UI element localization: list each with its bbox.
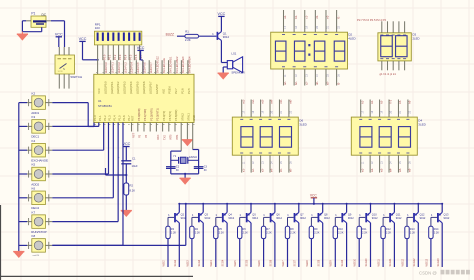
pin bottom 5 of D2 — [325, 69, 327, 86]
svg-text:SEG7: SEG7 — [293, 259, 296, 266]
push button K4 — [31, 139, 48, 163]
svg-text:Q12: Q12 — [420, 212, 425, 216]
power VCC (to U1 pin 40) — [79, 37, 99, 61]
svg-text:2.2K: 2.2K — [362, 231, 368, 235]
pin 3 of RP1 — [107, 45, 109, 60]
wire emitter Q6 — [274, 203, 276, 213]
wire K6 to U1 P1.4 — [52, 123, 113, 198]
pin bottom 4 of D6 — [269, 155, 271, 172]
transistor Q10 9012 — [359, 212, 378, 222]
pin bottom 6 of D4 — [407, 155, 409, 172]
wire U1 bottom stub — [168, 123, 170, 132]
svg-text:2.2K: 2.2K — [243, 231, 249, 235]
wire button common line — [18, 103, 20, 252]
svg-text:P0.3: P0.3 — [118, 54, 122, 60]
pin bottom 6 of D2 — [336, 69, 338, 86]
power VCC (Q1) — [218, 12, 226, 31]
svg-text:(LED)P0.3: (LED)P0.3 — [123, 81, 127, 94]
transistor Q7 9012 — [288, 212, 307, 222]
pin left of K7 — [27, 218, 32, 225]
wire collector Q13 — [441, 223, 443, 267]
svg-text:WEI13: WEI13 — [425, 258, 428, 266]
pin bottom 4 of D2 — [314, 69, 316, 86]
svg-text:Y1: Y1 — [173, 154, 177, 158]
pin 4 of RP1 — [112, 45, 114, 60]
wire R4 bottom — [191, 239, 193, 267]
pin top 10 of U1 — [155, 60, 157, 74]
svg-text:DC: DC — [42, 13, 47, 17]
wire base Q7 — [288, 217, 294, 226]
svg-text:SEG9: SEG9 — [341, 259, 344, 266]
svg-text:n1-: n1- — [241, 168, 245, 172]
wire — [0, 205, 2, 280]
pin bottom 2 of D2 — [293, 69, 295, 86]
wire R5 bottom — [215, 239, 217, 267]
pin top 15 of U1 — [187, 60, 189, 74]
7-seg display D6 — [232, 117, 298, 155]
wire BUZZ to R1 — [177, 35, 185, 37]
switch S1 — [55, 55, 82, 79]
wire XTAL1 — [193, 123, 199, 174]
svg-text:STC89C51: STC89C51 — [98, 104, 112, 108]
pin top 6 of D6 — [288, 100, 290, 118]
svg-text:9012: 9012 — [276, 216, 282, 220]
svg-text:S: S — [63, 67, 65, 71]
svg-text:VCC: VCC — [310, 194, 318, 198]
wire K2 to U1 P1.0 — [52, 103, 94, 127]
svg-text:b1-: b1- — [294, 15, 298, 19]
svg-text:SEG4: SEG4 — [222, 259, 225, 266]
svg-text:R6: R6 — [243, 227, 247, 231]
wire R11 bottom — [358, 239, 360, 267]
svg-text:3LED: 3LED — [418, 122, 426, 126]
pin top 5 of D3 — [404, 21, 406, 33]
svg-text:P1.0: P1.0 — [93, 115, 97, 121]
pin bottom 2 of D3 — [387, 61, 389, 70]
svg-text:RST: RST — [131, 115, 135, 121]
svg-text:R2: R2 — [130, 184, 134, 188]
wire collector Q12 — [417, 223, 419, 267]
svg-text:m1-: m1- — [241, 99, 245, 104]
wire collector Q6 — [274, 223, 276, 267]
ground (crystal) — [180, 178, 191, 184]
pin top 3 of D6 — [260, 100, 262, 118]
wire U1 bottom stub — [149, 123, 151, 132]
svg-text:Q7: Q7 — [300, 212, 304, 216]
resistor R2 — [124, 175, 135, 210]
pin top 3 of D3 — [392, 21, 394, 33]
svg-text:SEG8: SEG8 — [317, 259, 320, 266]
svg-text:8.2K: 8.2K — [130, 188, 136, 192]
wire Q1 collector to speaker — [221, 40, 227, 62]
capacitor C3 30 — [194, 166, 208, 173]
svg-text:9012: 9012 — [420, 216, 426, 220]
pin of S1 — [63, 47, 65, 55]
pin top 12 of U1 — [168, 60, 170, 74]
svg-text:Q8: Q8 — [324, 212, 328, 216]
svg-text:2.2K: 2.2K — [434, 231, 440, 235]
pin top 14 of U1 — [180, 60, 182, 74]
wire base Q8 — [311, 217, 317, 226]
svg-text:w4-: w4- — [389, 168, 393, 172]
svg-text:Q4: Q4 — [228, 212, 232, 216]
svg-text:(LED)P0.6: (LED)P0.6 — [142, 81, 146, 94]
wire emitter Q4 — [226, 203, 228, 213]
wire U1 bottom stub — [143, 123, 145, 132]
svg-text:BUZZ: BUZZ — [166, 32, 174, 36]
svg-text:LS1: LS1 — [231, 51, 236, 55]
op-amp U1 STC89C51 MCU — [94, 74, 194, 122]
svg-text:WEI8: WEI8 — [306, 260, 309, 267]
svg-text:SEG11: SEG11 — [389, 258, 392, 266]
svg-text:w2-: w2- — [370, 168, 374, 172]
svg-text:WEI2: WEI2 — [162, 260, 165, 267]
svg-text:WEI10: WEI10 — [354, 258, 357, 266]
pin bottom 2 of D4 — [369, 155, 371, 172]
crystal Y1 12MHz — [171, 154, 199, 164]
wire K3 to U1 P1.1 — [52, 123, 99, 127]
svg-text:m2-: m2- — [251, 99, 255, 104]
svg-text:e1-: e1- — [326, 15, 330, 19]
pin 8 of RP1 — [133, 45, 135, 60]
pin top 9 of U1 — [148, 60, 150, 74]
wire collector Q2 — [178, 223, 180, 267]
svg-text:LED-P0.4: LED-P0.4 — [130, 62, 134, 74]
svg-text:SEG6: SEG6 — [270, 259, 273, 266]
wire U1 bottom stub — [174, 123, 176, 132]
pin bottom 4 of D3 — [398, 61, 400, 70]
resistor R3 2.2K — [166, 226, 177, 238]
svg-text:2.2K: 2.2K — [338, 231, 344, 235]
pin top 2 of D3 — [387, 21, 389, 33]
svg-text:2.2K: 2.2K — [171, 231, 177, 235]
pin top 3 of U1 — [110, 60, 112, 74]
wire collector Q4 — [226, 223, 228, 267]
wire U1 bottom stub — [162, 123, 164, 132]
RP1 element 7 — [128, 33, 130, 41]
svg-text:XTAL2: XTAL2 — [180, 113, 184, 121]
wire K8 to U1 P1.6 — [52, 123, 123, 246]
wire base Q5 — [240, 217, 246, 226]
pin right of K4 — [45, 147, 52, 154]
svg-text:w6-: w6- — [408, 168, 412, 172]
svg-text:VCC: VCC — [97, 88, 101, 94]
svg-text:XTAL1: XTAL1 — [187, 113, 191, 121]
svg-text:LED-P0.7: LED-P0.7 — [149, 62, 153, 74]
wire collector Q8 — [322, 223, 324, 267]
resistor R11 2.2K — [357, 226, 368, 238]
resistor R12 2.2K — [381, 226, 392, 238]
wire base Q13 — [431, 217, 437, 226]
wire collector Q10 — [370, 223, 372, 267]
push button K2 — [31, 91, 45, 115]
transistor Q11 9012 — [383, 212, 402, 222]
svg-text:VCC: VCC — [218, 12, 226, 16]
svg-text:K4: K4 — [32, 139, 36, 143]
svg-text:SM-LED-WEI1: SM-LED-WEI1 — [168, 56, 172, 73]
transistor Q4 9012 — [216, 212, 235, 222]
transistor Q2 9012 — [168, 212, 187, 222]
svg-text:P1.5: P1.5 — [117, 115, 121, 121]
pin bottom 5 of D6 — [278, 155, 280, 172]
svg-text:K5: K5 — [32, 163, 36, 167]
transistor Q8 9012 — [311, 212, 330, 222]
pin left of K3 — [27, 123, 32, 130]
RP1 element 4 — [112, 33, 114, 41]
svg-text:SEG5: SEG5 — [246, 259, 249, 266]
watermark — [419, 270, 470, 276]
resistor network RP1 103 — [94, 22, 141, 45]
push button K6 — [31, 187, 45, 211]
svg-text:0-2: 0-2 — [389, 99, 393, 103]
pin top 1 of D6 — [241, 100, 243, 118]
wire K6 to common — [19, 197, 27, 199]
wire K4 to common — [19, 149, 27, 151]
pin top 5 of D2 — [325, 10, 327, 32]
wire R1 to Q1 base — [199, 35, 217, 37]
wire R3 bottom — [167, 239, 169, 267]
wire R9 bottom — [310, 239, 312, 267]
RP1 element 8 — [133, 33, 135, 41]
svg-text:U1: U1 — [98, 99, 102, 103]
svg-text:P3.5(T1): P3.5(T1) — [168, 111, 172, 121]
svg-text:LED-P0.2: LED-P0.2 — [117, 62, 121, 74]
svg-text:c2-: c2- — [304, 81, 308, 85]
wire emitter Q2 — [178, 203, 180, 213]
svg-text:INT1: INT1 — [176, 134, 179, 140]
svg-text:P2.6: P2.6 — [181, 88, 185, 94]
svg-text:WEI3: WEI3 — [186, 260, 189, 267]
svg-text:f2-: f2- — [336, 82, 340, 85]
pin of S1 — [68, 74, 70, 89]
svg-text:R12: R12 — [386, 227, 391, 231]
transistor Q5 9012 — [240, 212, 259, 222]
pin top 3 of D2 — [304, 10, 306, 32]
svg-text:P3.0(RXD): P3.0(RXD) — [137, 108, 141, 120]
wire base Q3 — [192, 217, 198, 226]
wire R14 bottom — [430, 239, 432, 267]
svg-text:(LED)P0.0: (LED)P0.0 — [103, 81, 107, 94]
svg-text:R5: R5 — [219, 227, 223, 231]
wire K5 to common — [19, 173, 27, 175]
pin top 2 of U1 — [103, 60, 105, 74]
wire collector Q11 — [393, 223, 395, 267]
pin top 1 of D2 — [283, 10, 285, 32]
pin bottom 1 of D3 — [381, 61, 383, 70]
transistor Q1 9012 — [212, 31, 229, 40]
svg-text:SM-LED-WEI4: SM-LED-WEI4 — [188, 56, 192, 73]
7-seg display D4 — [351, 117, 417, 155]
pin bottom 5 of D3 — [404, 61, 406, 70]
ground (speaker) — [218, 73, 229, 79]
pin bottom 3 of D6 — [260, 155, 262, 172]
svg-text:2.2K: 2.2K — [386, 231, 392, 235]
resistor R8 2.2K — [285, 226, 296, 238]
svg-text:9012: 9012 — [300, 216, 306, 220]
wire base Q12 — [407, 217, 413, 226]
svg-text:P3.4(T0): P3.4(T0) — [162, 111, 166, 121]
svg-text:P2.7 P2.6 P2.5 P2.4 P2: P2.7 P2.6 P2.5 P2.4 P2 — [357, 18, 387, 22]
pin top 4 of U1 — [116, 60, 118, 74]
pin bottom 3 of D2 — [304, 69, 306, 86]
svg-text:P2.5: P2.5 — [187, 88, 191, 94]
pin 1 of P1 — [26, 20, 31, 22]
svg-text:WEI6: WEI6 — [258, 260, 261, 267]
pin left of K6 — [27, 194, 32, 201]
svg-text:k5-: k5- — [398, 100, 402, 104]
wire emitter Q8 — [322, 203, 324, 213]
svg-text:RST: RST — [132, 133, 135, 138]
resistor R7 2.2K — [261, 226, 272, 238]
push button K8 — [32, 234, 46, 257]
svg-text:9012: 9012 — [181, 216, 187, 220]
pin 1 of RP1 — [97, 45, 99, 74]
svg-text:a1-: a1- — [283, 15, 287, 19]
svg-text:PSEN: PSEN — [168, 87, 172, 94]
svg-text:SEG2: SEG2 — [174, 259, 177, 266]
svg-text:m5-: m5- — [279, 99, 283, 104]
wire R13 bottom — [406, 239, 408, 267]
push button K3 — [31, 115, 45, 139]
svg-text:Q10: Q10 — [372, 212, 377, 216]
svg-text:9012: 9012 — [444, 216, 450, 220]
svg-text:k3-: k3- — [379, 100, 383, 104]
svg-text:Q9: Q9 — [348, 212, 352, 216]
svg-text:P1.4: P1.4 — [113, 115, 117, 121]
svg-text:m6-: m6- — [289, 99, 293, 104]
pin bottom 6 of D6 — [288, 155, 290, 172]
svg-text:P3.3(INT1): P3.3(INT1) — [156, 108, 160, 121]
resistor R4 2.2K — [190, 226, 201, 238]
push button K7 — [31, 210, 46, 234]
pin right of K5 — [45, 170, 52, 177]
pin bottom 3 of D4 — [379, 155, 381, 172]
svg-text:b2-: b2- — [294, 81, 298, 85]
pin bottom 1 of D2 — [283, 69, 285, 86]
svg-text:SEG13: SEG13 — [437, 258, 440, 267]
svg-text:ALE: ALE — [161, 89, 165, 94]
wire U1 bottom stub — [137, 123, 139, 132]
pin right of K2 — [45, 99, 52, 106]
wire K5 to U1 P1.3 — [52, 123, 108, 175]
pin top 2 of D2 — [293, 10, 295, 32]
svg-text:a2-: a2- — [283, 81, 287, 85]
pin top 5 of U1 — [122, 60, 124, 74]
resistor R5 2.2K — [214, 226, 225, 238]
svg-text:9012: 9012 — [372, 216, 378, 220]
RP1 element 5 — [118, 33, 120, 41]
svg-text:P1.3: P1.3 — [108, 115, 112, 121]
svg-text:P0.6: P0.6 — [134, 54, 138, 60]
pin of S1 — [68, 47, 70, 55]
svg-text:SEG10: SEG10 — [365, 258, 368, 267]
svg-text:R3: R3 — [171, 227, 175, 231]
svg-text:WEI4: WEI4 — [210, 260, 213, 267]
svg-text:K3: K3 — [32, 115, 36, 119]
svg-text:LED-P0.5: LED-P0.5 — [136, 62, 140, 74]
svg-text:m3-: m3- — [260, 99, 264, 104]
svg-text:103: 103 — [95, 26, 100, 30]
svg-text:P1.2: P1.2 — [103, 115, 107, 121]
wire base Q11 — [383, 217, 389, 226]
wire R7 bottom — [263, 239, 265, 267]
7-seg display D2 — [271, 32, 348, 69]
RP1 element 9 — [139, 33, 141, 41]
svg-text:LED-P0.3: LED-P0.3 — [123, 62, 127, 74]
wire base Q6 — [264, 217, 270, 226]
svg-text:SEG12: SEG12 — [413, 258, 416, 267]
pin left of K2 — [27, 99, 32, 106]
svg-text:WEI11: WEI11 — [378, 259, 381, 267]
svg-text:2.2K: 2.2K — [410, 231, 416, 235]
svg-text:w1-: w1- — [360, 168, 364, 172]
svg-text:Q2: Q2 — [181, 212, 185, 216]
svg-text:R10: R10 — [338, 227, 343, 231]
ground (reset) — [121, 211, 132, 217]
transistor Q3 9012 — [192, 212, 211, 222]
wire K8 to rail — [52, 203, 187, 246]
resistor R6 2.2K — [238, 226, 249, 238]
svg-text:k2-: k2- — [370, 100, 374, 104]
pin top 6 of D4 — [407, 100, 409, 118]
wire R10 bottom — [334, 239, 336, 267]
wire base Q4 — [216, 217, 222, 226]
svg-text:R11: R11 — [362, 227, 367, 231]
svg-text:n5-: n5- — [279, 168, 283, 172]
svg-text:3LED: 3LED — [299, 122, 307, 126]
svg-text:Q5: Q5 — [252, 212, 256, 216]
wire K7 to U1 P1.5 — [52, 123, 118, 222]
ground (U1 GND pin) — [182, 123, 193, 147]
pin 6 of RP1 — [123, 45, 125, 60]
svg-text:VCC: VCC — [79, 37, 87, 41]
7-seg display D3 — [378, 33, 411, 61]
transistor Q12 9012 — [407, 212, 426, 222]
pin top 6 of D2 — [336, 10, 338, 32]
pin top 13 of U1 — [174, 60, 176, 74]
pin right of K3 — [45, 123, 52, 130]
svg-text:9012: 9012 — [252, 216, 258, 220]
svg-text:d1-: d1- — [315, 15, 319, 19]
pin left of K5 — [27, 170, 32, 177]
node RST tap — [106, 168, 128, 176]
pin top 5 of D6 — [278, 100, 280, 118]
svg-text:P1.1: P1.1 — [98, 115, 102, 121]
pin top 4 of D6 — [269, 100, 271, 118]
pin top 4 of D4 — [388, 100, 390, 118]
wire K4 to U1 P1.2 — [52, 123, 103, 151]
svg-text:P1.6: P1.6 — [122, 115, 126, 121]
pin left of K4 — [27, 147, 32, 154]
wire emitter Q11 — [393, 203, 395, 213]
wire emitter Q9 — [346, 203, 348, 213]
capacitor C1 10uF — [118, 156, 138, 175]
svg-text:K7: K7 — [32, 210, 36, 214]
svg-text:TXD: TXD — [163, 135, 166, 140]
svg-text:(LED)P0.5: (LED)P0.5 — [136, 81, 140, 94]
svg-text:2LED: 2LED — [413, 36, 420, 40]
wire emitter Q5 — [250, 203, 252, 213]
power VCC (reset) — [123, 142, 131, 160]
svg-text:n3-: n3- — [260, 168, 264, 172]
svg-text:P0.4: P0.4 — [123, 54, 127, 60]
pin top 6 of U1 — [129, 60, 131, 74]
svg-text:9012: 9012 — [348, 216, 354, 220]
pin of S1 — [58, 47, 60, 55]
svg-text:INT0: INT0 — [170, 134, 173, 140]
svg-text:10uF: 10uF — [132, 164, 138, 168]
svg-text:P1: P1 — [31, 12, 35, 16]
